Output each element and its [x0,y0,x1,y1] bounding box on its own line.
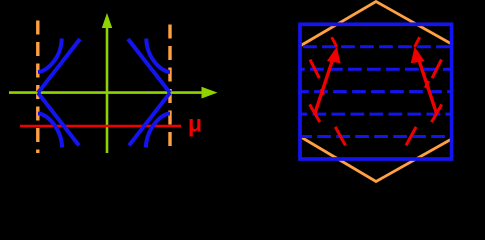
red dash A2 fragment left [321,89,324,95]
left zone boundary (dashed orange vertical) [36,21,39,154]
hexagonal Brillouin zone, upper chevron (orange) [300,2,452,47]
band: linear cone line up-right at left Dirac point [38,39,80,93]
reflected overshoot dash right [415,37,420,47]
hexagonal Brillouin zone, lower chevron (orange) [300,137,452,182]
svg-text:μ: μ [188,111,202,137]
right zone boundary (dashed orange vertical) [168,25,171,154]
folded momentum line 3 (blue dashed) [300,90,452,93]
band: linear cone line down-right at left Dirac point [38,93,79,146]
red dash A left [310,60,319,79]
solid folding arrow shaft left [315,51,336,115]
horizontal k axis (green) [9,91,203,94]
arrowhead of right folding arrow [411,47,425,64]
solid folding arrow shaft right [416,51,437,115]
vertical E axis (green) [106,27,109,153]
reflected overshoot dash left [332,37,337,47]
folded momentum line 2 (blue dashed) [300,68,452,71]
red dash A right [432,60,441,79]
band: lower hyperbola at left boundary [38,114,62,148]
folded momentum line 4 (blue dashed) [300,113,452,116]
folded momentum line 5 (blue dashed) [300,135,452,138]
band: upper hyperbola at left boundary [38,39,62,73]
red dash A2 fragment right [425,81,429,88]
chemical potential line (red) [20,125,181,128]
band: linear cone line up-left at right Dirac point [128,39,170,93]
band: lower hyperbola at right boundary [146,114,170,148]
folded momentum line 1 (blue dashed) [300,45,452,48]
red dash C left [335,127,345,145]
red dash B left (crosses arrow shaft on folded line 4) [310,104,320,122]
E axis arrowhead [102,13,112,28]
band: linear cone line down-left at right Dirac point [129,93,170,146]
band: upper hyperbola at right boundary [146,39,170,73]
red dash B right (crosses arrow shaft on folded line 4) [432,104,442,122]
red dash C right [406,127,416,145]
folded rectangular Brillouin zone (blue square) [300,24,452,159]
arrowhead of left folding arrow [327,47,341,64]
k axis arrowhead [202,87,218,99]
